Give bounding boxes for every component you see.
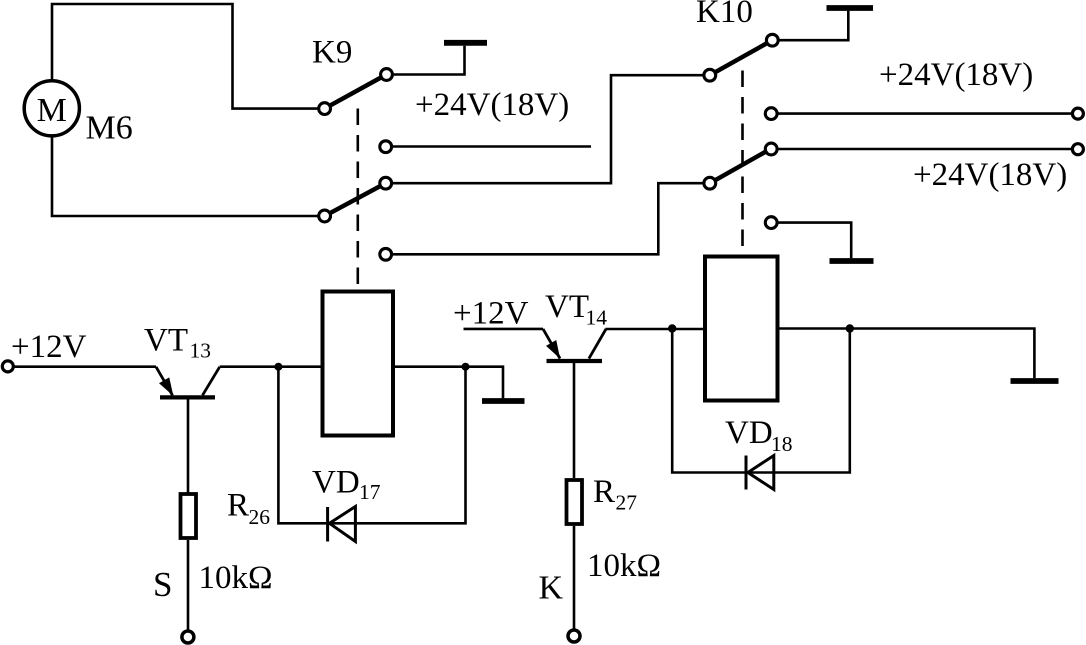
svg-text:27: 27 xyxy=(616,491,638,515)
svg-text:VD: VD xyxy=(312,465,360,501)
svg-text:14: 14 xyxy=(586,306,608,330)
svg-text:VT: VT xyxy=(144,323,188,359)
svg-text:18: 18 xyxy=(771,432,793,456)
svg-text:26: 26 xyxy=(249,505,271,529)
svg-text:10kΩ: 10kΩ xyxy=(199,560,273,596)
svg-text:S: S xyxy=(153,565,172,604)
svg-text:K9: K9 xyxy=(312,35,352,71)
svg-text:+12V: +12V xyxy=(11,329,87,365)
svg-text:+12V: +12V xyxy=(453,296,529,332)
svg-text:R: R xyxy=(593,474,615,510)
svg-text:17: 17 xyxy=(359,480,381,504)
svg-text:VT: VT xyxy=(545,289,589,325)
svg-text:R: R xyxy=(227,488,249,524)
svg-text:+24V(18V): +24V(18V) xyxy=(415,87,569,123)
svg-text:10kΩ: 10kΩ xyxy=(587,548,661,584)
svg-text:13: 13 xyxy=(190,339,212,363)
svg-text:M6: M6 xyxy=(86,110,133,147)
svg-text:M: M xyxy=(37,92,67,129)
svg-text:+24V(18V): +24V(18V) xyxy=(913,157,1067,193)
svg-text:+24V(18V): +24V(18V) xyxy=(879,57,1033,93)
svg-text:K: K xyxy=(539,570,564,607)
svg-text:VD: VD xyxy=(725,415,773,451)
svg-text:K10: K10 xyxy=(696,0,753,30)
